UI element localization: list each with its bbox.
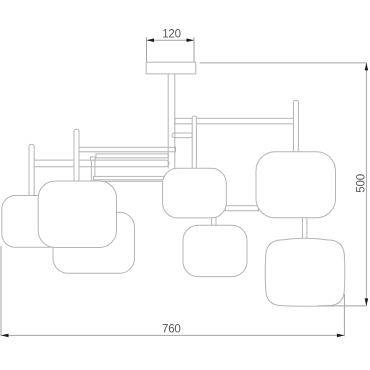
bar2 thin horizontal rod (96, 154, 168, 158)
capsule bar from post A to stem (31, 160, 169, 167)
arrow 760 left (1, 334, 9, 338)
canopy ceiling plate (146, 62, 196, 74)
svg-text:500: 500 (356, 174, 368, 193)
shade B large left (38, 181, 116, 248)
knob on capsule bar (91, 157, 96, 160)
svg-text:120: 120 (162, 29, 181, 41)
shade D middle upper (163, 168, 227, 218)
arrow 500 down (365, 298, 369, 306)
dim 760 line (1, 334, 344, 336)
shade A leftmost (2, 196, 63, 248)
dim 120 extension lines (147, 37, 195, 62)
arrow 120 right (187, 38, 195, 42)
arrow 760 right (337, 334, 345, 338)
shade E middle lower (183, 225, 247, 276)
shade F right upper (256, 152, 336, 218)
post B vertical rod (74, 129, 79, 181)
post A vertical rod (29, 144, 34, 195)
dim 500 reference line top (200, 62, 367, 64)
shade C lower left (53, 212, 135, 273)
dim 120 line (147, 39, 195, 41)
post D vertical rod (192, 116, 196, 169)
dim 760 extension lines (1, 246, 344, 336)
arrow 120 left (147, 38, 155, 42)
arrow 500 up (365, 63, 369, 71)
svg-text:760: 760 (162, 324, 181, 336)
stem F-G (302, 217, 307, 240)
arm1 horizontal rod from stem to post F (175, 118, 294, 124)
capsule arm at post D (172, 133, 193, 138)
central stem below canopy (168, 74, 175, 169)
dim 500 line (365, 63, 367, 306)
bar1 horizontal rod from post B to stem (77, 147, 176, 152)
connector D-E (212, 217, 216, 226)
dim 500 extension line bottom (318, 305, 367, 307)
bar5 thin rod B to D collinear with B top (96, 180, 163, 182)
stem of shade C (91, 160, 95, 181)
bar3 thin rod to shade D (94, 176, 164, 179)
bar4 rod between shade D and shade F (225, 206, 258, 211)
post F vertical rod (294, 100, 299, 152)
shade G right lower (265, 238, 345, 306)
